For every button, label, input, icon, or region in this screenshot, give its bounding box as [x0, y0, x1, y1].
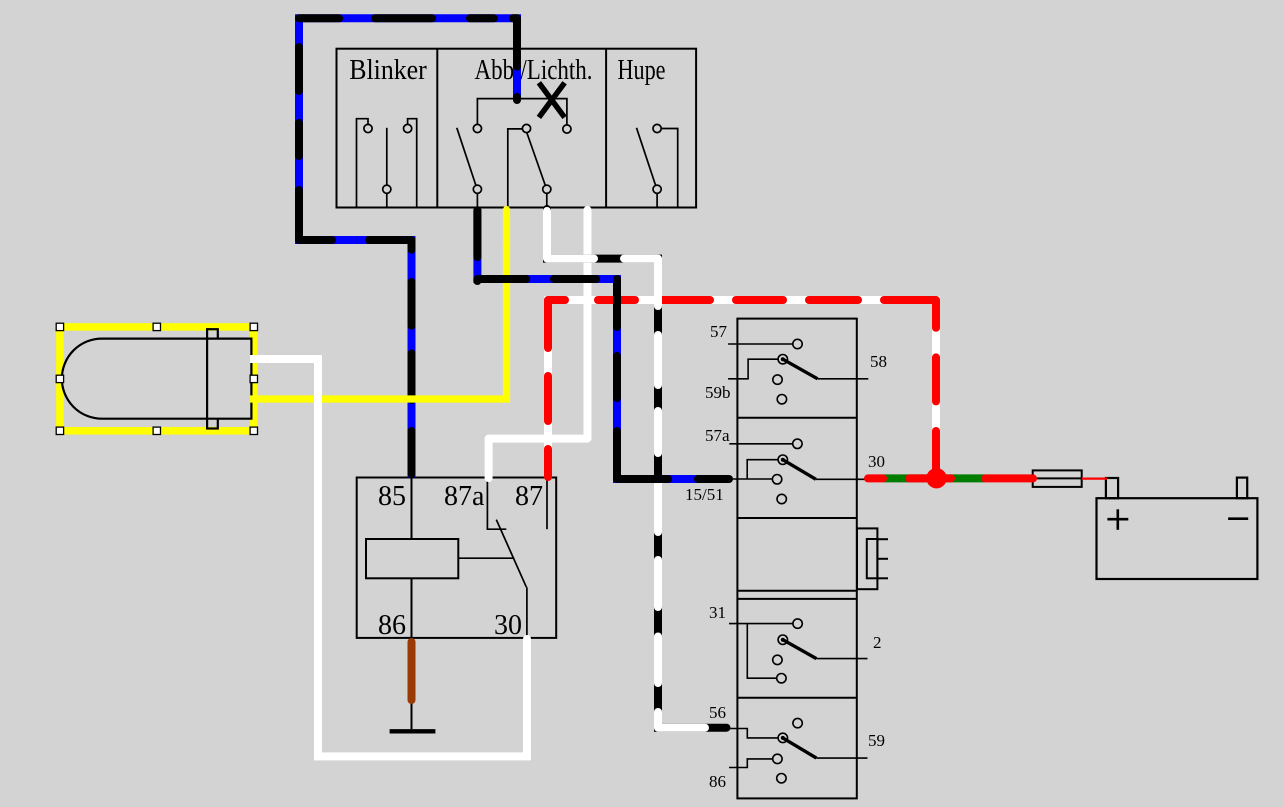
thin red link fuse to battery plus: [1082, 478, 1107, 480]
S2 terminal 59b bracket: [728, 359, 778, 379]
wire W6 white: headlight to relay 30: [250, 359, 527, 756]
wire W8 black-blue: Abbl contact to switch 15/51, blue base: [477, 209, 729, 479]
selection frame around headlight E1: [60, 327, 254, 431]
svg-text:87: 87: [515, 481, 543, 512]
S2 rotor pivot section1: [778, 355, 787, 364]
wire W3 red dashes: [548, 300, 936, 477]
svg-text:Hupe: Hupe: [618, 55, 666, 86]
wire W5 white: Lichth contact to relay 87a: [489, 210, 588, 478]
X mark over Lichth contact: [539, 83, 565, 118]
svg-text:30: 30: [868, 452, 885, 471]
S1 Blinker contacts and blade: [357, 119, 417, 208]
ground symbol below relay 86: [390, 703, 436, 731]
wire W9 brown: relay 86 to ground: [408, 642, 416, 700]
svg-text:2: 2: [873, 633, 882, 652]
battery G1 minus terminal mark: [1228, 517, 1248, 520]
S2 connector lug: [857, 528, 888, 589]
relay K1 box: [357, 478, 557, 638]
S1 Hupe contacts and blade: [637, 124, 678, 207]
wire W3 red-white: junction to relay 87, white base: [548, 300, 936, 478]
S2 free contact section4 mid: [773, 655, 782, 664]
svg-text:Abbl/Lichth.: Abbl/Lichth.: [475, 55, 593, 86]
battery G1 plus terminal mark: [1107, 509, 1128, 530]
svg-text:58: 58: [870, 352, 887, 371]
svg-text:15/51: 15/51: [685, 485, 724, 504]
wire W7 white dashes: [547, 211, 705, 728]
S2 free contact section1 mid: [773, 375, 782, 384]
S2 blade section1: [783, 359, 818, 379]
relay K1 switch contacts: [458, 479, 547, 638]
S2 terminal 56 elbow: [730, 729, 778, 738]
S2 rotor pivot section2: [778, 455, 787, 464]
svg-text:Blinker: Blinker: [349, 55, 427, 86]
S2 terminal 57a stub: [729, 439, 802, 448]
wire W4 red-green: switch 30 to fuse, green base: [883, 474, 985, 482]
S2 terminal 31 stub: [729, 619, 802, 683]
fuse F1: [1033, 470, 1082, 487]
svg-text:59: 59: [868, 731, 885, 750]
svg-text:86: 86: [709, 772, 726, 791]
S2 free contact section1 bottom: [777, 395, 786, 404]
svg-text:59b: 59b: [705, 383, 731, 402]
svg-text:86: 86: [378, 610, 406, 641]
svg-text:31: 31: [709, 603, 726, 622]
junction node between wires W3 and W4: [926, 468, 946, 488]
S2 terminal 15/51 line and bracket: [731, 460, 782, 484]
S1 Abbl/Lichth contacts, bridge and blades: [457, 99, 571, 208]
ignition-light switch S2 box: [737, 319, 856, 799]
S2 free contact section5 top: [793, 718, 802, 727]
S2 free contact section5 bottom: [777, 774, 786, 783]
svg-text:87a: 87a: [444, 481, 485, 512]
wire W8 black dashes: [477, 211, 729, 480]
S2 terminal 2 stub: [816, 658, 867, 660]
svg-text:57: 57: [710, 322, 728, 341]
wire W7 white-black: Abbl contact to switch 56, black base: [547, 209, 727, 728]
S2 terminal 86 elbow: [729, 754, 782, 767]
S2 terminal 30 stub: [816, 478, 866, 480]
S2 rotor pivot section5: [778, 733, 787, 742]
S2 terminal 58 stub: [818, 378, 869, 380]
svg-text:30: 30: [494, 610, 522, 641]
svg-text:57a: 57a: [705, 426, 730, 445]
wire W1 black dashes: [299, 18, 517, 474]
S2 blade section2: [783, 460, 816, 480]
svg-text:85: 85: [378, 481, 406, 512]
S2 free contact section2 bottom: [777, 494, 786, 503]
wire W1 black-blue: switch box feed to relay 85, blue base: [299, 18, 517, 477]
relay K1 coil: [366, 478, 458, 639]
selection handles of headlight E1: [56, 323, 257, 434]
headlight E1 (lamp symbol): [62, 329, 252, 428]
S2 terminal 57 stub: [728, 339, 802, 348]
battery G1: [1097, 478, 1258, 579]
S2 blade section5: [783, 738, 817, 758]
S2 blade section4: [783, 640, 817, 659]
handlebar switch box S1: [337, 49, 697, 208]
wire W2 yellow: Abbl switch to headlight: [250, 210, 507, 400]
S2 terminal 59 stub: [816, 757, 867, 759]
svg-text:56: 56: [709, 703, 726, 722]
wire W4 red dashes: [868, 474, 1033, 482]
S2 rotor pivot section4: [778, 635, 787, 644]
